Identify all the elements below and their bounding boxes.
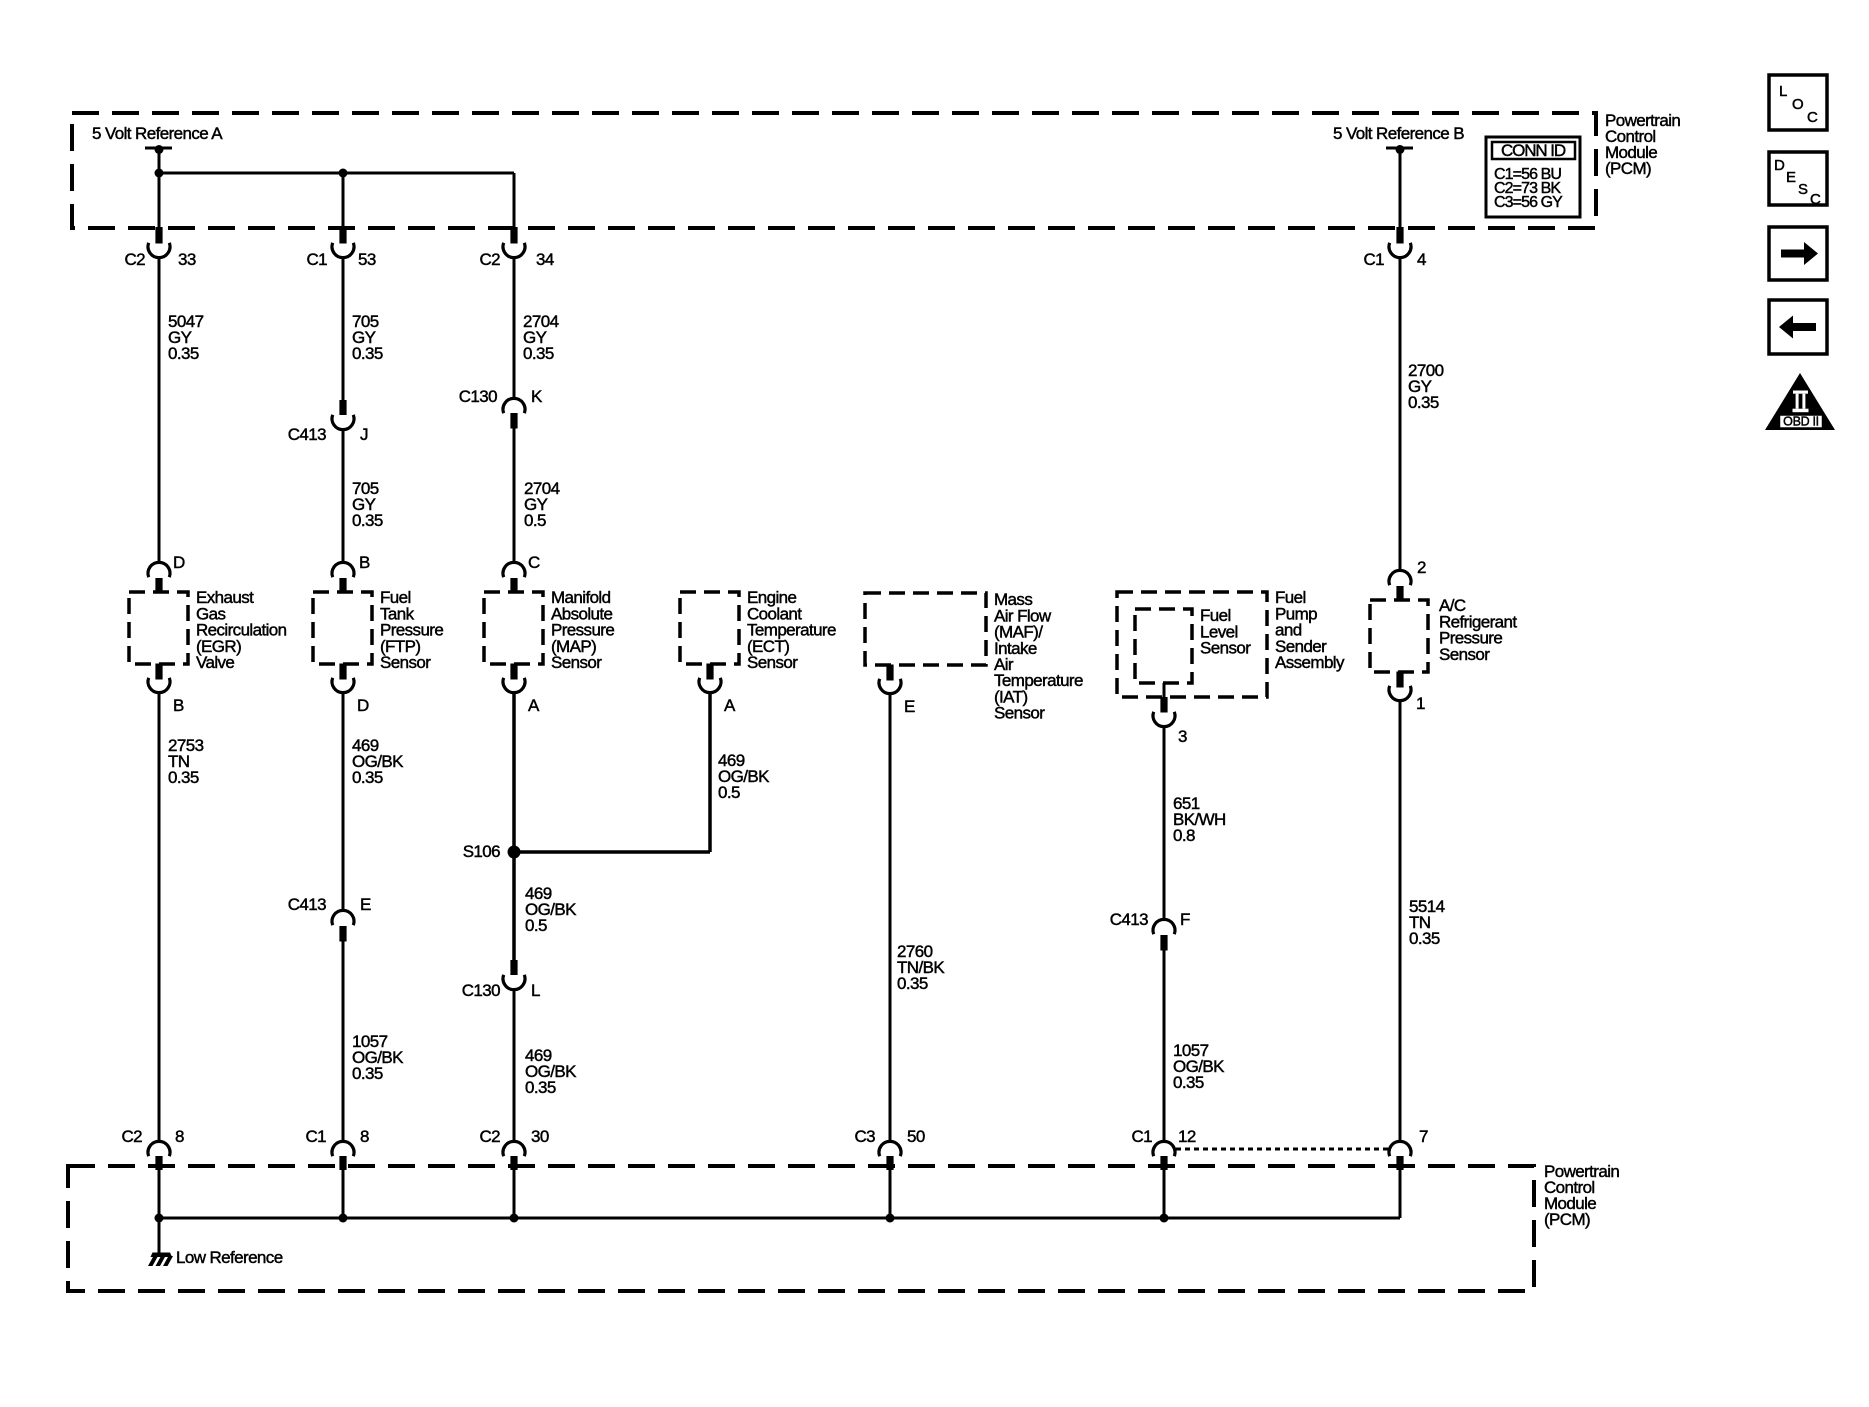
pin stub 12 [1160,1156,1167,1170]
EGR pin D connector [148,562,170,577]
connector C2 pin 8 [148,1141,170,1156]
icon DESC [1769,152,1827,208]
A/C pin 1 stub [1396,672,1403,688]
low reference bus [159,1217,1400,1220]
svg-text:8: 8 [360,1127,369,1146]
splice S106 [508,846,521,859]
connector C2 pin 30 [503,1141,525,1156]
FTP pin B stub [339,578,346,594]
svg-text:C2: C2 [121,1127,142,1146]
svg-text:D: D [173,553,185,572]
wire 2753 TN [158,693,161,1141]
svg-text:7: 7 [1419,1127,1428,1146]
wire 2704 GY lower [513,428,516,562]
pin stub 8 [339,1156,346,1170]
svg-text:A: A [528,696,540,715]
wire 469 OG/BK upper [342,693,345,910]
Fuel Pump and Sender Assembly box [1117,592,1267,697]
svg-text:50: 50 [907,1127,925,1146]
wire branch to pin C1-53 [342,173,345,228]
connector pin 7 [1389,1141,1411,1156]
svg-text:C413: C413 [1110,910,1148,929]
svg-text:12: 12 [1178,1127,1196,1146]
ECT sensor box [680,592,739,664]
svg-text:C: C [528,553,540,572]
icon LOC [1769,75,1827,130]
svg-text:K: K [531,387,543,406]
svg-text:3: 3 [1178,727,1187,746]
Fuel Level Sensor box [1135,609,1192,683]
terminal dot 5V Ref B [1396,145,1405,154]
svg-text:D: D [1774,157,1785,174]
C413 E stub [339,926,346,942]
MAP sensor box [484,592,543,664]
A/C pin 1 connector [1389,686,1411,701]
C413 J stub [339,400,346,415]
A/C refrigerant pressure sensor box [1370,600,1428,672]
wire 1057 OG/BK [342,941,345,1141]
svg-text:E: E [904,697,915,716]
wire branch to pin C2-34 [513,173,516,228]
junction low ref at EGR [155,1214,164,1223]
FTP sensor box [313,592,372,664]
pin stub C1-4 [1396,227,1403,244]
connector C1 pin 53 [332,243,354,258]
svg-text:C3: C3 [854,1127,875,1146]
svg-text:53: 53 [358,250,376,269]
FTP pin B connector [332,562,354,577]
svg-text:D: D [357,696,369,715]
wire 469 OG/BK 0.5 below splice [512,852,516,960]
FTP pin D stub [339,664,346,680]
C130 L stub [510,960,517,975]
wire to low reference ground [158,1218,161,1256]
svg-text:F: F [1180,910,1190,929]
wire 469 OG/BK 0.35 [513,990,516,1141]
svg-text:S106: S106 [463,842,500,861]
pin stub C2-33 [155,227,162,244]
terminal bar 5V Ref A [145,147,172,150]
ECT pin A stub [706,664,713,680]
svg-text:705 GY 0.35: 705 GY 0.35 [352,479,383,530]
inline connector C413 pin F [1153,919,1175,934]
svg-text:L: L [1779,83,1787,100]
svg-text:Low Reference: Low Reference [176,1248,283,1267]
EGR pin B stub [155,664,162,680]
wire pin 30 into PCM [513,1169,516,1218]
junction at EGR branch [155,169,164,178]
junction low ref at fuel level [1160,1214,1169,1223]
assembly pin 3 connector [1153,712,1175,727]
icon arrow left [1769,300,1827,354]
C130 K stub [510,413,517,429]
svg-text:E: E [1786,169,1796,186]
A/C sensor pin 2 connector [1389,570,1411,585]
MAF pin E connector [879,679,901,694]
svg-text:CONN ID: CONN ID [1501,141,1566,160]
EGR pin D stub [155,578,162,594]
C413 F stub [1160,935,1167,951]
connector C2 pin 33 [148,243,170,258]
svg-text:33: 33 [178,250,196,269]
svg-text:30: 30 [531,1127,549,1146]
icon OBD II triangle [1765,373,1835,430]
svg-text:5 Volt Reference B: 5 Volt Reference B [1333,124,1464,143]
svg-text:C1: C1 [1131,1127,1152,1146]
inline connector C413 pin E [332,910,354,925]
pin stub C2-34 [510,227,517,244]
wire 2704 GY upper [513,258,516,398]
wire 5514 TN [1399,701,1402,1141]
junction at FTP branch [339,169,348,178]
wire 2700 GY [1399,258,1402,570]
svg-text:8: 8 [175,1127,184,1146]
svg-text:B: B [173,696,184,715]
wire splice to ECT branch [514,850,710,854]
wire inside assembly [1163,683,1166,697]
pin stub 8 [155,1156,162,1170]
A/C pin 2 stub [1396,586,1403,602]
svg-text:C413: C413 [288,425,326,444]
pin stub 30 [510,1156,517,1170]
connector C1 pin 8 [332,1141,354,1156]
connector C1 pin 4 [1389,243,1411,258]
junction low ref at FTP [339,1214,348,1223]
wire pin 8 (C1) into PCM [342,1169,345,1218]
svg-text:B: B [359,553,370,572]
pin stub C1-53 [339,227,346,244]
svg-text:2: 2 [1417,558,1426,577]
inline connector C130 pin K [503,398,525,413]
MAF pin E stub [886,665,893,681]
svg-text:1: 1 [1416,694,1425,713]
icon arrow right [1769,227,1827,280]
connector C2 pin 34 [503,243,525,258]
inline connector C413 pin J [332,415,354,430]
PCM bottom dashed box outline [68,1166,1534,1291]
wire 1057 OG/BK (fuel level) [1163,950,1166,1141]
pin stub 50 [886,1156,893,1170]
EGR valve box [129,592,188,664]
terminal bar 5V Ref B [1386,147,1413,150]
svg-text:C130: C130 [462,981,500,1000]
svg-text:S: S [1798,181,1808,198]
svg-text:OBD II: OBD II [1783,415,1819,429]
PCM top dashed box outline [72,113,1596,228]
svg-text:C413: C413 [288,895,326,914]
wire 705 GY upper [342,258,345,400]
MAP pin A stub [510,664,517,680]
ECT pin A connector [699,678,721,693]
junction low ref at MAF [886,1214,895,1223]
svg-text:C: C [1807,109,1818,126]
svg-text:J: J [360,425,368,444]
MAF/IAT sensor box [865,593,986,665]
svg-text:C2: C2 [479,250,500,269]
wire pin 7 into PCM [1399,1169,1402,1218]
svg-text:C1: C1 [306,250,327,269]
wire 469 OG/BK 0.5 from ECT [708,693,712,852]
wire 5V Ref A down to pin C2-33 [158,148,161,228]
svg-text:C2: C2 [479,1127,500,1146]
svg-text:A: A [724,696,736,715]
svg-text:E: E [360,895,371,914]
svg-text:C2: C2 [124,250,145,269]
svg-text:C1: C1 [305,1127,326,1146]
svg-text:C: C [1810,191,1821,208]
inline connector C130 pin L [503,975,525,990]
MAP pin C connector [503,562,525,577]
svg-text:34: 34 [536,250,554,269]
wire 5V Ref B down to pin C1-4 [1399,148,1402,228]
EGR pin B connector [148,678,170,693]
FTP pin D connector [332,678,354,693]
terminal dot 5V Ref A [155,145,164,154]
wire pin 50 into PCM [889,1169,892,1218]
wire 2760 TN/BK [889,694,892,1141]
svg-text:C3=56 GY: C3=56 GY [1494,194,1563,211]
svg-text:5 Volt Reference A: 5 Volt Reference A [92,124,223,143]
dashed connector continuation C1 pins 12-7 [1176,1148,1389,1151]
svg-text:705 GY 0.35: 705 GY 0.35 [352,312,383,363]
junction low ref at MAP [510,1214,519,1223]
MAP pin C stub [510,578,517,594]
svg-text:L: L [531,981,540,1000]
wire 705 GY lower [342,430,345,562]
svg-text:C1: C1 [1363,250,1384,269]
ground symbol Low Reference [148,1253,173,1267]
svg-text:O: O [1792,96,1804,113]
pin stub 7 [1396,1156,1403,1170]
CONN ID table [1486,137,1580,217]
wire 5047 GY [158,258,161,562]
MAP pin A connector [503,678,525,693]
wire 651 BK/WH [1163,727,1166,919]
svg-text:4: 4 [1417,250,1426,269]
svg-text:C130: C130 [459,387,497,406]
wire pin 8 into PCM [158,1169,161,1218]
connector C1 pin 12 [1153,1141,1175,1156]
assembly pin 3 stub [1160,697,1167,713]
wire pin 12 into PCM [1163,1169,1166,1218]
wire 469 OG/BK 0.5 to splice [512,693,516,852]
connector C3 pin 50 [879,1141,901,1156]
wire bus 5V Ref A inside PCM [159,172,514,175]
